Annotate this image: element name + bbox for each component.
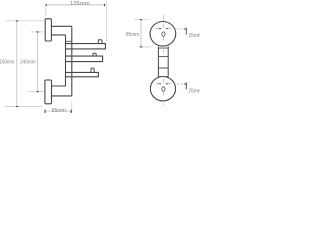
dim 85mm extension right (from post down) xyxy=(71,100,73,111)
wall plate top (side view) xyxy=(45,19,51,41)
post joint ring xyxy=(66,40,72,42)
svg-text:25mm: 25mm xyxy=(188,33,200,39)
dim 135mm extension right xyxy=(105,1,107,42)
bottom circle centerline vertical xyxy=(162,79,164,106)
dim 25mm bottom vertical line xyxy=(185,82,187,89)
dim 150mm tick top xyxy=(16,20,18,22)
column joint lines xyxy=(158,48,168,77)
dim 25mm top arrow dot xyxy=(184,28,186,30)
dim 55mm line xyxy=(140,20,142,47)
dim 135mm tick left xyxy=(45,4,47,6)
dim 140mm tick top xyxy=(36,31,38,33)
dim 85mm tick left xyxy=(44,110,46,113)
rosette circle top xyxy=(150,22,176,47)
dim 25mm bottom dashed leader xyxy=(177,83,186,85)
dim 135mm tick right xyxy=(104,4,106,6)
svg-text:55mm: 55mm xyxy=(126,32,140,38)
dim 135mm line xyxy=(46,4,105,6)
arm 1 end nub xyxy=(98,40,102,44)
dim 25mm bottom: inner arrows line xyxy=(156,83,170,85)
dim 55mm extension bottom xyxy=(140,46,152,48)
dim 55mm tick top xyxy=(140,19,142,21)
arm 2 end nub xyxy=(93,53,96,56)
dim 150mm extension bottom xyxy=(5,106,43,108)
arm bar 2 (middle) xyxy=(66,56,103,62)
arm 3 end nub xyxy=(91,68,94,72)
dim 25mm top arrow marks xyxy=(159,28,168,30)
bottom bracket arm (elbow from post down-left to bottom plate) xyxy=(52,86,72,96)
dim 85mm tick right xyxy=(70,110,72,113)
arm bar 3 (bottom, shortest) xyxy=(66,72,99,76)
dim 150mm tick bottom xyxy=(16,106,18,108)
screw slot bottom circle xyxy=(162,87,165,92)
svg-text:135mm: 135mm xyxy=(70,1,90,7)
rosette circle bottom xyxy=(150,77,175,101)
svg-text:150mm: 150mm xyxy=(0,59,15,65)
dim 140mm tick bottom xyxy=(36,91,38,93)
connecting column (post front view) xyxy=(158,46,168,77)
dim 140mm extension bottom xyxy=(29,91,45,93)
dim 55mm tick bottom xyxy=(140,46,142,48)
dim 25mm top dashed leader xyxy=(177,28,186,30)
dim 150mm extension top xyxy=(5,20,44,22)
dim 140mm line xyxy=(36,32,38,92)
svg-text:85mm: 85mm xyxy=(52,108,66,114)
dim 25mm top vertical line xyxy=(185,28,187,35)
screw slot top circle xyxy=(162,32,165,37)
svg-text:140mm: 140mm xyxy=(20,59,36,65)
top bracket arm (horizontal elbow from top plate to post) xyxy=(51,26,71,35)
post left edge (vertical rod) xyxy=(65,35,67,86)
svg-text:25mm: 25mm xyxy=(188,88,200,94)
dim 25mm top: inner arrows line xyxy=(156,28,170,30)
arm bar 1 (top, longest) xyxy=(66,44,106,49)
top circle centerline vertical xyxy=(162,15,164,53)
post right edge (vertical rod) xyxy=(71,26,73,96)
wall plate bottom (side view) xyxy=(45,80,52,104)
dim 25mm bottom arrow dot xyxy=(184,83,186,85)
dim 25mm bottom arrow marks xyxy=(159,83,168,85)
dim 55mm extension top xyxy=(134,19,151,21)
dim 85mm line xyxy=(45,110,71,112)
dim 135mm extension left xyxy=(45,7,47,17)
dim 150mm line xyxy=(16,21,18,107)
dim 140mm extension top xyxy=(31,31,44,33)
